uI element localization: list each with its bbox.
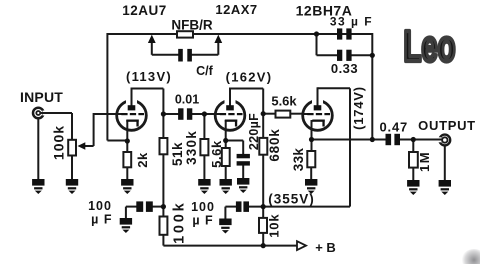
svg-text:(174V): (174V): [351, 86, 366, 130]
svg-text:680k: 680k: [267, 128, 282, 161]
svg-text:33 µ F: 33 µ F: [330, 15, 373, 29]
svg-text:10k: 10k: [266, 214, 281, 238]
svg-text:100: 100: [191, 200, 215, 214]
svg-text:12AX7: 12AX7: [215, 2, 257, 17]
svg-text:2k: 2k: [135, 152, 150, 168]
svg-text:100: 100: [88, 199, 112, 213]
svg-text:5.6k: 5.6k: [271, 94, 297, 109]
svg-text:µ F: µ F: [192, 214, 213, 228]
svg-text:Leo: Leo: [404, 21, 456, 70]
svg-text:µ F: µ F: [91, 213, 112, 227]
svg-text:100k: 100k: [171, 200, 187, 243]
svg-text:NFB/R: NFB/R: [171, 18, 212, 33]
svg-text:OUTPUT: OUTPUT: [418, 118, 476, 133]
svg-text:51k: 51k: [170, 142, 185, 166]
svg-text:(113V): (113V): [126, 69, 172, 84]
svg-text:100k: 100k: [51, 125, 67, 160]
svg-text:(355V): (355V): [268, 192, 315, 207]
svg-text:33k: 33k: [291, 148, 306, 172]
svg-text:0.47: 0.47: [380, 120, 409, 135]
svg-text:C/f: C/f: [196, 64, 214, 78]
svg-text:0.33: 0.33: [331, 61, 358, 76]
svg-text:(162V): (162V): [226, 70, 273, 85]
svg-text:330k: 330k: [184, 130, 199, 165]
svg-text:1M: 1M: [417, 151, 432, 172]
svg-text:5.6k: 5.6k: [209, 140, 224, 168]
svg-text:0.01: 0.01: [175, 93, 199, 107]
svg-text:INPUT: INPUT: [20, 89, 63, 105]
svg-text:220µF: 220µF: [247, 113, 261, 150]
svg-text:12AU7: 12AU7: [122, 3, 167, 18]
svg-text:+ B: + B: [315, 240, 336, 255]
